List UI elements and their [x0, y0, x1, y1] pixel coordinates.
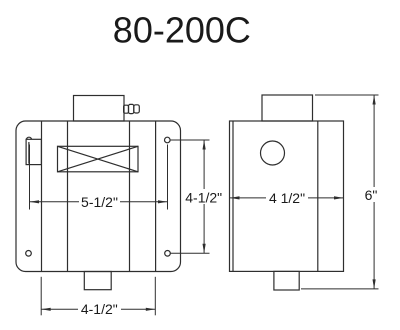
- tank body right edge: [155, 121, 157, 272]
- arrow right 4 1/2 right: [334, 196, 344, 199]
- dim 5-1/2 extension line left: [29, 145, 31, 210]
- arrow right 4 1/2 left: [230, 196, 240, 199]
- dim vert 4-1/2 line: [203, 140, 205, 253]
- mounting hole top-left: [26, 137, 32, 143]
- filler neck side view: [262, 95, 313, 121]
- svg-text:4-1/2": 4-1/2": [81, 301, 118, 317]
- right view plate edge line: [232, 121, 234, 271]
- sight tube inner wall: [28, 142, 30, 164]
- dim 6 line: [373, 95, 375, 289]
- dim 5-1/2 extension line right: [167, 145, 169, 210]
- filler neck front view: [74, 96, 125, 122]
- right view inner seam line: [317, 121, 319, 271]
- dim right 4 1/2 line: [230, 197, 344, 199]
- crossed box diagonal 2: [58, 146, 139, 172]
- arrow 5-1/2 left: [30, 200, 40, 203]
- mounting hole bottom-right: [165, 251, 171, 257]
- arrow bottom 4-1/2 left: [41, 308, 51, 311]
- tank body left edge: [41, 121, 43, 272]
- side port circle: [261, 141, 285, 165]
- hose barb fitting ridge 3: [134, 105, 140, 113]
- dim bottom 4-1/2 extension left: [40, 277, 42, 316]
- dim bottom 4-1/2 line: [41, 308, 155, 310]
- left view backplate: [16, 121, 181, 272]
- bottom drain fitting side view: [274, 271, 299, 290]
- tank inner right line: [129, 121, 131, 272]
- text mask bottom 4-1/2: [78, 302, 121, 316]
- hose barb fitting ridge 1: [124, 105, 129, 113]
- bottom drain fitting front view: [84, 272, 111, 290]
- arrow 5-1/2 right: [158, 200, 168, 203]
- hose barb fitting ridge 2: [129, 104, 134, 113]
- text mask 5-1/2: [79, 196, 120, 208]
- svg-text:5-1/2": 5-1/2": [81, 194, 118, 210]
- sight tube (left bracket): [26, 139, 41, 164]
- arrow bottom 4-1/2 right: [146, 308, 156, 311]
- dim vert 4-1/2 extension top: [171, 139, 210, 141]
- dim 6 extension top: [315, 94, 379, 96]
- arrow 6 up: [373, 95, 376, 105]
- svg-text:6": 6": [365, 187, 378, 203]
- text mask 6: [364, 187, 379, 202]
- arrow 6 down: [373, 279, 376, 289]
- text mask right 4 1/2: [266, 191, 308, 205]
- dim bottom 4-1/2 extension right: [154, 277, 156, 316]
- crossed box diagonal 1: [58, 146, 139, 172]
- tank inner left line: [67, 121, 69, 272]
- arrow vert 4-1/2 down: [203, 244, 206, 254]
- svg-text:4-1/2": 4-1/2": [185, 190, 222, 206]
- text mask vert 4-1/2: [184, 189, 224, 204]
- svg-text:80-200C: 80-200C: [113, 9, 251, 50]
- svg-text:4 1/2": 4 1/2": [269, 190, 305, 206]
- crossed label box: [58, 146, 139, 172]
- arrow vert 4-1/2 up: [203, 140, 206, 150]
- mounting hole top-right: [165, 137, 171, 143]
- right view body: [230, 121, 344, 271]
- mounting hole bottom-left: [26, 251, 32, 257]
- dim 6 extension bottom: [301, 288, 379, 290]
- dim vert 4-1/2 extension bottom: [171, 252, 210, 254]
- dim 5-1/2 line: [30, 201, 168, 203]
